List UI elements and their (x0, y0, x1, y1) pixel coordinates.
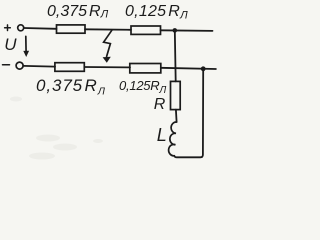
faint scan smudges (10, 97, 103, 160)
wire top-middle (85, 28, 131, 31)
wire bottom-middle (84, 66, 130, 68)
junction node top (173, 28, 178, 33)
svg-text:0,375RЛ: 0,375RЛ (36, 76, 106, 97)
wire top-left (24, 27, 57, 30)
svg-text:U: U (4, 35, 17, 54)
resistor 0,125RЛ bottom (130, 64, 161, 73)
wire junction to load (174, 30, 177, 81)
svg-text:L: L (157, 125, 167, 145)
short-circuit lightning bolt (104, 30, 112, 56)
terminal plus (18, 25, 24, 31)
voltage arrow (25, 36, 27, 52)
wire bottom-right (161, 68, 216, 69)
svg-text:R: R (154, 96, 166, 113)
svg-text:0,125RЛ: 0,125RЛ (125, 3, 188, 22)
svg-text:0,375RЛ: 0,375RЛ (47, 3, 109, 21)
inductor L (169, 122, 177, 156)
junction node bottom (201, 66, 206, 71)
wire top-right (161, 29, 213, 32)
terminal minus (16, 62, 23, 69)
wire load bottom and right vertical (174, 69, 203, 157)
resistor 0,125RЛ top (131, 26, 161, 34)
plus sign (5, 25, 11, 31)
wire bottom-left (23, 65, 55, 68)
resistor R (171, 81, 181, 109)
wire R to L (175, 110, 178, 122)
resistor 0,375RЛ top (57, 25, 86, 33)
minus sign (3, 64, 10, 66)
resistor 0,375RЛ bottom (55, 63, 84, 72)
